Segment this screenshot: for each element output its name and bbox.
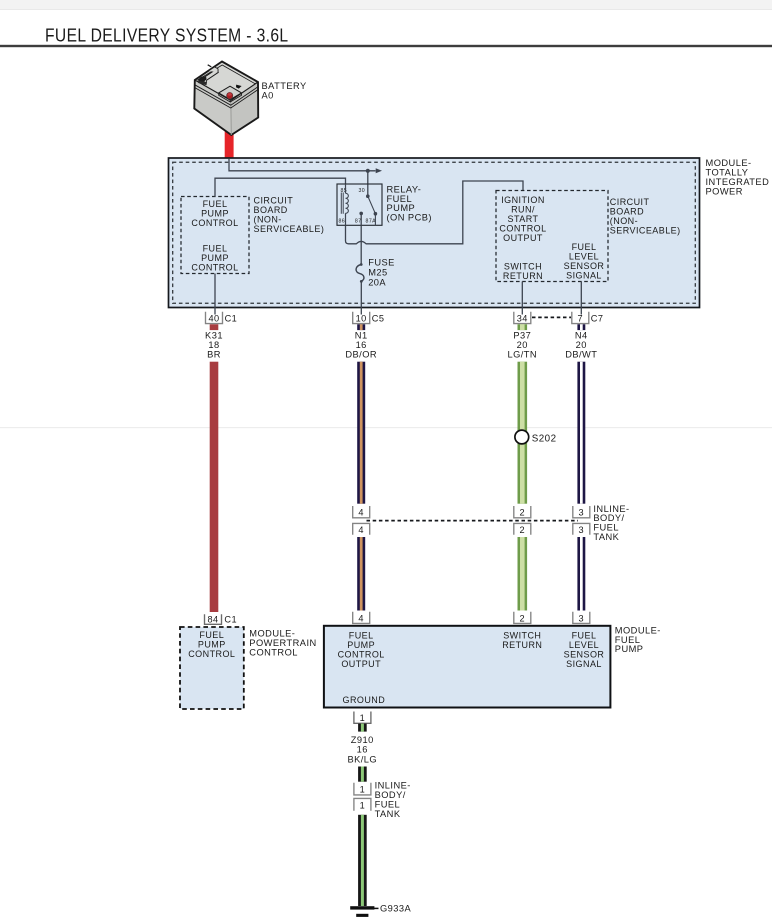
svg-text:BR: BR [207, 350, 221, 360]
top gray strip [0, 0, 772, 10]
svg-text:RETURN: RETURN [502, 640, 542, 650]
inline body/fuel tank label (ground) [375, 781, 411, 819]
svg-text:87A: 87A [366, 218, 377, 224]
svg-text:FUEL: FUEL [572, 242, 597, 252]
inline connector 4 (tank side) [353, 523, 370, 535]
svg-text:86: 86 [338, 218, 345, 224]
svg-text:CONTROL: CONTROL [188, 649, 235, 659]
svg-text:30: 30 [358, 188, 365, 194]
inline connector 3 (body side) [573, 506, 590, 518]
svg-text:C5: C5 [372, 313, 385, 323]
wire: switch return lead [521, 282, 523, 315]
svg-text:FUEL: FUEL [203, 199, 228, 209]
svg-text:CONTROL: CONTROL [249, 648, 298, 658]
svg-text:DB/OR: DB/OR [345, 350, 377, 360]
battery top recess [219, 86, 242, 99]
svg-text:84: 84 [207, 615, 218, 625]
svg-text:PUMP: PUMP [347, 640, 375, 650]
svg-text:2: 2 [520, 525, 526, 535]
battery A0 [194, 62, 258, 136]
svg-text:SERVICEABLE): SERVICEABLE) [254, 224, 325, 234]
svg-text:CONTROL: CONTROL [191, 218, 238, 228]
svg-text:C1: C1 [225, 313, 238, 323]
wire N4 label [565, 330, 597, 359]
wire K31 18 BR run to C1 pin 84 [210, 362, 219, 612]
svg-text:BK/LG: BK/LG [347, 754, 377, 764]
svg-text:20A: 20A [368, 278, 386, 288]
inline connector dashed link [367, 520, 579, 522]
inline connector 3 (tank side) [573, 523, 590, 535]
svg-text:FUEL: FUEL [572, 631, 597, 641]
wire Z910 middle run [358, 767, 367, 782]
module fuel pump label [615, 625, 661, 654]
svg-text:Z910: Z910 [351, 735, 374, 745]
svg-text:FUEL: FUEL [199, 630, 224, 640]
wire P37 20 LG/TN upper run [518, 362, 528, 504]
svg-text:P37: P37 [513, 330, 531, 340]
svg-text:PUMP: PUMP [201, 209, 229, 219]
fuse M25 20A [356, 257, 395, 287]
wire Z910 label [347, 735, 377, 764]
svg-text:LEVEL: LEVEL [569, 252, 599, 262]
svg-text:SIGNAL: SIGNAL [566, 271, 602, 281]
svg-text:2: 2 [520, 508, 526, 518]
wire P37 label [507, 330, 537, 359]
wire N1 16 DB/OR stub [357, 324, 365, 330]
svg-text:7: 7 [578, 313, 584, 323]
connector pin 7 C7 [572, 312, 604, 324]
svg-text:TOTALLY: TOTALLY [706, 167, 749, 177]
connector pin 10 C5 [353, 312, 385, 324]
svg-text:PUMP: PUMP [201, 253, 229, 263]
svg-text:DB/WT: DB/WT [565, 350, 597, 360]
svg-text:FUSE: FUSE [368, 257, 395, 267]
relay contacts and blade [366, 194, 370, 198]
wire Z910 16 BK/LG stub [358, 724, 367, 732]
connector pin 3 (module fuel pump) [573, 612, 590, 624]
wire: relay pin 86 to ignition run/start control output [346, 181, 524, 244]
svg-text:GROUND: GROUND [343, 695, 386, 705]
inline connector 2 (tank side) [514, 523, 531, 535]
svg-text:SENSOR: SENSOR [564, 261, 605, 271]
svg-text:CONTROL: CONTROL [191, 262, 238, 272]
connector pin 40 C1 [206, 312, 238, 324]
svg-text:CONTROL: CONTROL [499, 223, 546, 233]
svg-text:OUTPUT: OUTPUT [341, 659, 381, 669]
ground G933A [350, 904, 411, 917]
svg-text:3: 3 [579, 525, 585, 535]
svg-text:IGNITION: IGNITION [501, 195, 545, 205]
module powertrain control label [249, 629, 316, 658]
svg-text:RUN/: RUN/ [511, 204, 535, 214]
inline connector 4 (body side) [353, 506, 370, 518]
wire N1 lower run [357, 537, 365, 611]
relay label [387, 184, 432, 222]
inline connector 2 (body side) [514, 506, 531, 518]
connector pin 84 C1 [205, 614, 238, 624]
svg-text:MODULE-: MODULE- [706, 158, 752, 168]
svg-text:34: 34 [517, 313, 528, 323]
module TIPM outer box [169, 158, 700, 308]
inline body/fuel tank label [593, 504, 629, 542]
svg-text:PUMP: PUMP [615, 644, 644, 654]
svg-text:CIRCUIT: CIRCUIT [610, 197, 650, 207]
svg-text:4: 4 [358, 525, 364, 535]
svg-text:20: 20 [576, 340, 587, 350]
svg-text:BATTERY: BATTERY [262, 81, 307, 91]
wire: fuel pump control lead to pin 40 [214, 274, 216, 315]
svg-text:OUTPUT: OUTPUT [503, 233, 543, 243]
svg-text:TANK: TANK [375, 809, 401, 819]
wire: fuel level sensor signal lead [580, 282, 582, 315]
splice S202 [515, 430, 557, 444]
svg-text:16: 16 [357, 745, 368, 755]
wire N1 16 DB/OR upper run [357, 362, 365, 504]
title underline [0, 45, 772, 47]
wire Z910 lower run [358, 815, 367, 906]
svg-text:PUMP: PUMP [198, 640, 226, 650]
connector pin 1 (ground) [354, 712, 371, 724]
svg-text:FUEL: FUEL [203, 243, 228, 253]
faint page-break line [0, 427, 772, 428]
wire: battery positive cable [225, 124, 234, 160]
battery positive terminal (red) [226, 92, 233, 99]
wire K31 label [205, 330, 223, 359]
svg-text:BOARD: BOARD [610, 207, 644, 217]
svg-text:G933A: G933A [380, 904, 412, 914]
circuit board label (left) [254, 195, 325, 234]
module powertrain control dashed box [180, 627, 244, 709]
ignition run/start dashed box [496, 191, 608, 282]
svg-text:(ON PCB): (ON PCB) [387, 213, 432, 223]
svg-text:A0: A0 [262, 91, 274, 101]
module TIPM inner dashed border [173, 162, 696, 303]
svg-text:4: 4 [358, 508, 364, 518]
svg-text:18: 18 [208, 340, 219, 350]
inline connector 1 (body side) [354, 783, 371, 795]
wire N4 20 DB/WT stub [577, 324, 585, 330]
svg-text:SWITCH: SWITCH [503, 631, 541, 641]
svg-text:START: START [508, 214, 539, 224]
svg-text:FUEL DELIVERY SYSTEM - 3.6L: FUEL DELIVERY SYSTEM - 3.6L [45, 25, 289, 46]
svg-text:CONTROL: CONTROL [338, 650, 385, 660]
svg-text:POWER: POWER [706, 187, 743, 197]
relay coil core lines [341, 193, 343, 214]
relay coil [346, 193, 349, 213]
svg-text:87: 87 [355, 218, 362, 224]
connector pin 2 (module fuel pump) [514, 612, 531, 624]
module TIPM label [706, 158, 770, 197]
svg-text:10: 10 [356, 313, 367, 323]
module fuel pump box [324, 626, 611, 708]
svg-text:RETURN: RETURN [503, 271, 543, 281]
svg-text:MODULE-: MODULE- [249, 629, 295, 639]
svg-text:K31: K31 [205, 330, 223, 340]
battery label [262, 81, 307, 101]
svg-text:LG/TN: LG/TN [507, 350, 537, 360]
svg-text:(NON-: (NON- [254, 214, 282, 224]
svg-text:1: 1 [360, 785, 366, 795]
svg-text:POWERTRAIN: POWERTRAIN [249, 638, 316, 648]
node: junction dot at relay 30 feed [366, 169, 370, 197]
battery negative terminal (black) [197, 75, 207, 83]
wire P37 lower run [518, 537, 528, 611]
svg-text:1: 1 [360, 800, 366, 810]
svg-text:TANK: TANK [593, 532, 619, 542]
wire N4 20 DB/WT upper run [577, 362, 585, 504]
svg-text:LEVEL: LEVEL [569, 640, 599, 650]
svg-text:SWITCH: SWITCH [504, 262, 542, 272]
connector pin 4 (module fuel pump) [353, 612, 370, 624]
battery top-left vent step [203, 70, 218, 80]
circuit board dashed box (fuel pump control) [181, 197, 249, 274]
svg-text:16: 16 [356, 340, 367, 350]
inline connector 1 (tank side) [354, 798, 371, 810]
svg-text:S202: S202 [532, 433, 557, 444]
svg-text:4: 4 [358, 613, 364, 623]
svg-text:SERVICEABLE): SERVICEABLE) [610, 226, 681, 236]
wire N4 lower run [577, 537, 585, 611]
svg-text:20: 20 [517, 340, 528, 350]
svg-text:C1: C1 [224, 615, 237, 625]
svg-text:CIRCUIT: CIRCUIT [254, 195, 294, 205]
svg-text:2: 2 [520, 613, 526, 623]
svg-text:1: 1 [360, 713, 366, 723]
svg-text:SIGNAL: SIGNAL [566, 659, 602, 669]
svg-text:SENSOR: SENSOR [564, 650, 605, 660]
svg-text:(NON-: (NON- [610, 216, 638, 226]
svg-text:3: 3 [579, 613, 585, 623]
wire N1 label [345, 330, 377, 359]
svg-text:N4: N4 [575, 330, 588, 340]
wire: fuel pump control to relay pin 85 [215, 178, 346, 196]
dashed link pin34 to pin7 [532, 316, 571, 318]
svg-text:N1: N1 [355, 330, 368, 340]
svg-text:BOARD: BOARD [254, 205, 288, 215]
wire: battery feed into box, arrow to relay pin 30 [229, 159, 382, 174]
wire K31 18 BR stub [210, 324, 219, 330]
svg-text:FUEL: FUEL [349, 631, 374, 641]
circuit board label (right) [610, 197, 681, 236]
connector pin 34 [514, 312, 531, 324]
wire P37 20 LG/TN stub [518, 324, 528, 330]
svg-text:40: 40 [208, 313, 219, 323]
svg-text:C7: C7 [591, 313, 604, 323]
wire: fuse to connector C5 [360, 281, 362, 314]
wire: relay pin 87 to fuse [360, 225, 362, 264]
svg-text:M25: M25 [368, 268, 387, 278]
relay U - fuel pump (on PCB) [337, 184, 382, 225]
svg-text:INTEGRATED: INTEGRATED [706, 177, 770, 187]
battery marker flag [236, 85, 242, 89]
svg-text:3: 3 [579, 508, 585, 518]
